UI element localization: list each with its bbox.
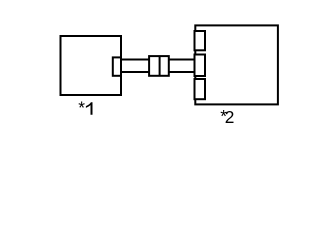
terminal tab B (middle) on connector *2 <box>195 55 206 77</box>
svg-text:*: * <box>78 98 85 118</box>
connector box *1 <box>61 36 122 95</box>
label *1 digit <box>86 102 93 115</box>
connector box *2 <box>195 25 278 104</box>
terminal tab C (bottom) on connector *2 <box>195 79 206 99</box>
terminal tab A (top) on connector *2 <box>195 31 206 50</box>
in-line connector <box>149 56 169 76</box>
wire <box>121 60 197 73</box>
terminal tab on connector *1 <box>113 57 121 75</box>
in-line connector divider <box>159 56 161 76</box>
svg-text:2: 2 <box>225 107 235 127</box>
